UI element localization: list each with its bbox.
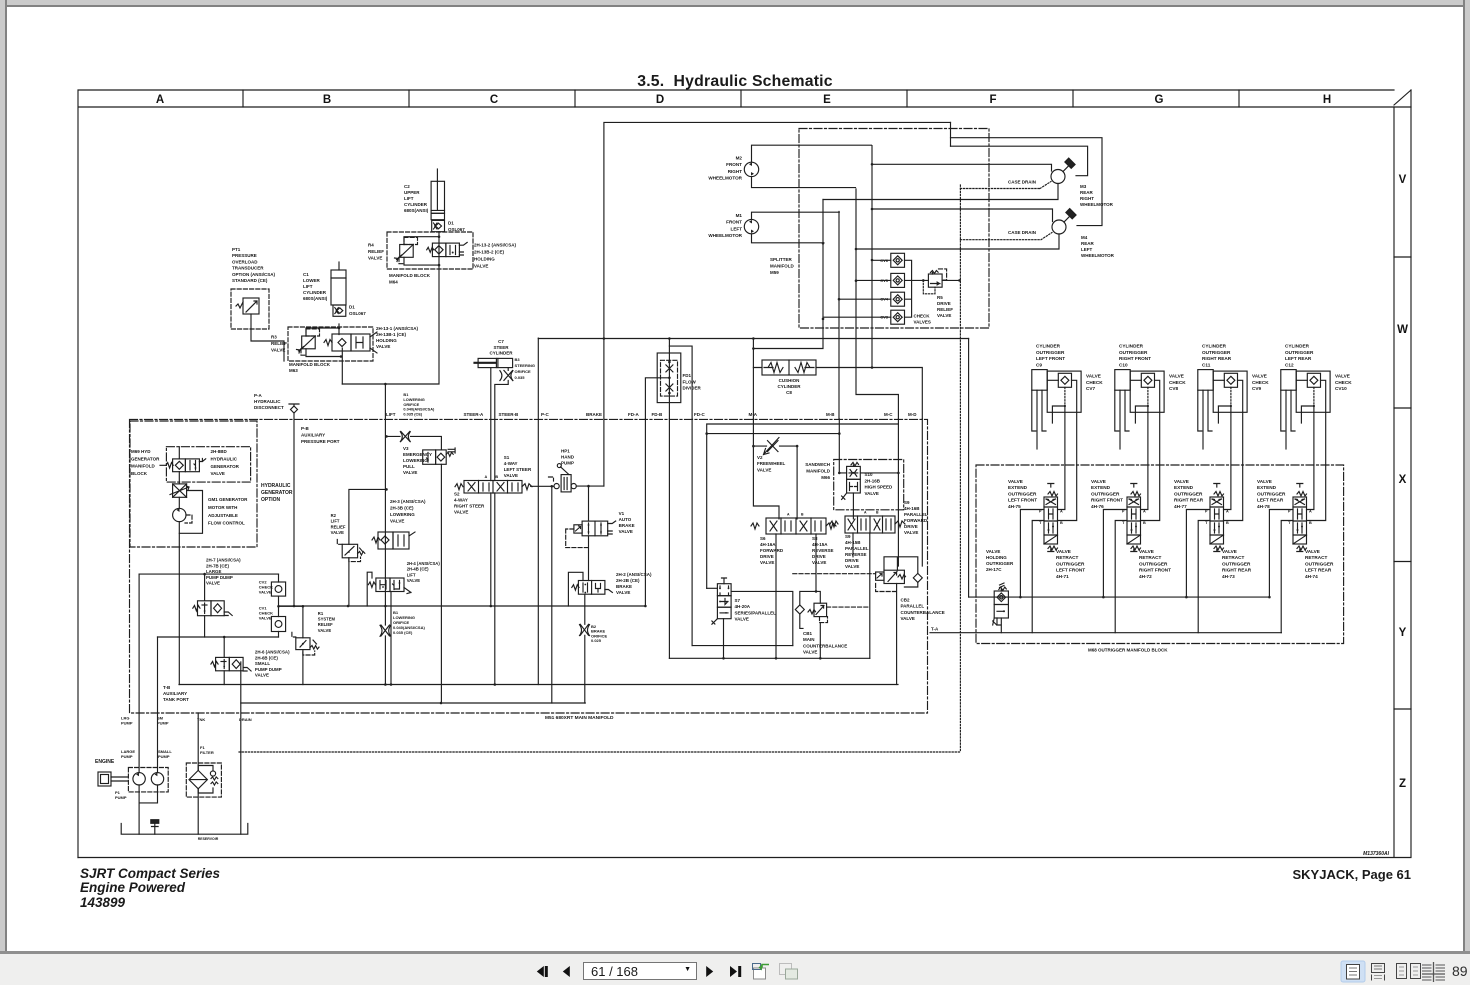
- relief valve R4: [368, 237, 418, 263]
- main counterbalance valve CB1: [795, 591, 870, 658]
- cushion wires: [753, 368, 922, 420]
- svg-text:PUMP DUMP: PUMP DUMP: [206, 575, 233, 580]
- svg-text:PT1: PT1: [232, 247, 241, 252]
- svg-text:C11: C11: [1202, 362, 1211, 367]
- svg-text:OSL067: OSL067: [349, 311, 366, 316]
- svg-text:VALVE: VALVE: [403, 470, 417, 475]
- wire splitter vertical c: [838, 212, 841, 420]
- svg-text:FRONT: FRONT: [726, 162, 742, 167]
- svg-text:4H-74: 4H-74: [1305, 574, 1318, 579]
- svg-text:4H-73: 4H-73: [1222, 574, 1235, 579]
- steer valve S1/S2 4-way: [454, 455, 532, 515]
- main manifold block M51 (dashed): [130, 419, 928, 721]
- svg-text:S9: S9: [845, 534, 851, 539]
- check valve CV10: [1296, 371, 1352, 423]
- svg-text:SANDWICH: SANDWICH: [805, 462, 830, 467]
- check valve CV6: [880, 253, 904, 267]
- svg-text:VALVES: VALVES: [914, 320, 931, 325]
- svg-text:OUTRIGGER: OUTRIGGER: [1056, 561, 1085, 566]
- svg-text:H: H: [1323, 94, 1331, 106]
- svg-text:VALVE: VALVE: [735, 617, 749, 622]
- svg-text:VALVE: VALVE: [986, 549, 1000, 554]
- svg-text:RIGHT FRONT: RIGHT FRONT: [1139, 568, 1171, 573]
- svg-text:VALVE: VALVE: [1086, 374, 1101, 379]
- svg-text:PRESSURE: PRESSURE: [232, 253, 257, 258]
- svg-text:CHECK: CHECK: [1086, 380, 1103, 385]
- svg-text:RIGHT FRONT: RIGHT FRONT: [1119, 356, 1151, 361]
- svg-text:OUTRIGGER: OUTRIGGER: [1305, 561, 1334, 566]
- svg-text:RETRACT: RETRACT: [1222, 555, 1245, 560]
- svg-text:C7: C7: [498, 339, 504, 344]
- svg-text:RELIEF: RELIEF: [368, 249, 384, 254]
- svg-text:EXTEND: EXTEND: [1008, 485, 1028, 490]
- svg-text:CHECK: CHECK: [1252, 380, 1269, 385]
- svg-text:CASE DRAIN: CASE DRAIN: [1008, 230, 1036, 235]
- svg-text:LEFT FRONT: LEFT FRONT: [1008, 498, 1037, 503]
- toolbar nav buttons: [530, 954, 810, 985]
- check valve CV4: [880, 292, 904, 306]
- main feed wire top: [538, 122, 968, 486]
- system relief valve R1: [292, 605, 336, 685]
- svg-text:RIGHT: RIGHT: [1080, 196, 1094, 201]
- svg-text:R2: R2: [331, 513, 337, 518]
- splitter manifold M59 box: [770, 129, 989, 329]
- svg-text:S8: S8: [812, 536, 818, 541]
- svg-text:VALVE: VALVE: [211, 471, 225, 476]
- svg-text:STEERING: STEERING: [515, 363, 535, 368]
- svg-text:VALVE: VALVE: [407, 578, 421, 583]
- svg-text:CYLINDER: CYLINDER: [303, 290, 327, 295]
- pump dump circuit wires: [139, 573, 303, 639]
- cushion cylinder C8: [762, 360, 816, 395]
- svg-text:E: E: [823, 94, 831, 106]
- svg-text:680S(ANSI): 680S(ANSI): [303, 296, 328, 301]
- svg-text:HYDRAULIC: HYDRAULIC: [211, 456, 238, 461]
- svg-text:EXTEND: EXTEND: [1174, 485, 1194, 490]
- svg-text:DRIVE: DRIVE: [845, 558, 859, 563]
- svg-text:M64: M64: [389, 280, 398, 285]
- toolbar: [0, 951, 1470, 954]
- svg-text:SYSTEM: SYSTEM: [318, 617, 336, 622]
- svg-text:ORIFICE: ORIFICE: [515, 369, 532, 374]
- svg-text:S7: S7: [735, 598, 741, 603]
- svg-text:VALVE: VALVE: [368, 255, 382, 260]
- bus line (y658): [669, 657, 869, 659]
- svg-text:WHEELMOTOR: WHEELMOTOR: [1081, 253, 1115, 258]
- svg-text:0.035 (CE): 0.035 (CE): [393, 630, 413, 635]
- svg-text:PARALLEL: PARALLEL: [901, 604, 925, 609]
- svg-text:M66: M66: [821, 475, 830, 480]
- lift valve 2H-4: [367, 561, 440, 685]
- svg-text:LEFT: LEFT: [731, 226, 743, 231]
- svg-text:P: P: [1039, 510, 1042, 514]
- svg-text:PUMP: PUMP: [561, 461, 574, 466]
- svg-text:VALVE: VALVE: [206, 581, 220, 586]
- svg-text:WHEELMOTOR: WHEELMOTOR: [1080, 202, 1114, 207]
- svg-text:2H-6 (ANSI/CSA): 2H-6 (ANSI/CSA): [255, 650, 290, 655]
- svg-text:VALVE: VALVE: [1252, 374, 1267, 379]
- svg-text:OUTRIGGER: OUTRIGGER: [1202, 350, 1231, 355]
- svg-text:D: D: [656, 94, 664, 106]
- svg-text:2H-3 (ANSI/CSA): 2H-3 (ANSI/CSA): [390, 499, 426, 504]
- svg-text:MANIFOLD: MANIFOLD: [806, 469, 830, 474]
- svg-text:OPTION (ANSI/CSA): OPTION (ANSI/CSA): [232, 272, 276, 277]
- svg-text:2H-17C: 2H-17C: [986, 567, 1002, 572]
- svg-text:V: V: [1399, 174, 1407, 186]
- pressure transducer PT1: [231, 247, 276, 329]
- svg-text:S1: S1: [504, 455, 510, 460]
- outrigger manifold block M68: [976, 465, 1344, 653]
- svg-text:STEER-B: STEER-B: [499, 412, 520, 417]
- svg-text:HYDRAULIC: HYDRAULIC: [261, 483, 291, 489]
- cylinder C2 upper lift: [431, 169, 444, 220]
- svg-text:B3: B3: [515, 357, 521, 362]
- svg-text:RELIEF: RELIEF: [937, 307, 953, 312]
- svg-text:4H-75: 4H-75: [1008, 504, 1021, 509]
- svg-text:0.035: 0.035: [515, 375, 526, 380]
- svg-text:LEFT REAR: LEFT REAR: [1257, 498, 1284, 503]
- holding valve 2H-13-2: [427, 242, 517, 268]
- svg-text:VALVE: VALVE: [454, 510, 468, 515]
- svg-text:RIGHT FRONT: RIGHT FRONT: [1091, 498, 1123, 503]
- bus line tank drain (y703): [241, 702, 586, 704]
- svg-text:MANIFOLD: MANIFOLD: [770, 264, 794, 269]
- outrigger extend valve 4H-75: [1008, 479, 1063, 552]
- wire hand pump ports: [531, 485, 604, 703]
- outrigger cylinder C11 right rear: [1198, 344, 1232, 450]
- svg-text:HYDRAULIC: HYDRAULIC: [254, 399, 281, 404]
- svg-text:4H-77: 4H-77: [1174, 504, 1187, 509]
- svg-text:W: W: [1397, 324, 1408, 336]
- svg-text:VALVE: VALVE: [1091, 479, 1106, 484]
- svg-text:4H-72: 4H-72: [1139, 574, 1152, 579]
- svg-text:DISCONNECT: DISCONNECT: [254, 405, 284, 410]
- svg-text:VALVE: VALVE: [845, 564, 859, 569]
- svg-text:REAR: REAR: [1081, 241, 1095, 246]
- svg-text:C: C: [490, 94, 498, 106]
- drive sub-box: [707, 424, 899, 588]
- svg-text:SMALL: SMALL: [255, 661, 270, 666]
- svg-text:VALVE: VALVE: [865, 491, 879, 496]
- svg-text:RETRACT: RETRACT: [1139, 555, 1162, 560]
- row labels V-Z: [1397, 174, 1408, 790]
- brake valve 2H-2: [568, 572, 652, 703]
- next page button: [706, 966, 713, 977]
- svg-text:CHECK: CHECK: [1169, 380, 1186, 385]
- svg-text:STANDARD (CE): STANDARD (CE): [232, 278, 268, 283]
- svg-text:BRAKE: BRAKE: [586, 412, 602, 417]
- svg-text:P-A: P-A: [254, 393, 263, 398]
- svg-text:FILTER: FILTER: [200, 750, 214, 755]
- flow divider FD1: [657, 353, 701, 403]
- orifice D1 OSL067 (lower): [333, 305, 366, 317]
- svg-text:REVERSE: REVERSE: [845, 552, 867, 557]
- svg-text:BRAKE: BRAKE: [616, 584, 632, 589]
- svg-text:FORWARD: FORWARD: [760, 548, 784, 553]
- svg-text:A: A: [864, 511, 867, 515]
- svg-text:4-WAY: 4-WAY: [504, 461, 518, 466]
- svg-text:OVERLOAD: OVERLOAD: [232, 259, 258, 264]
- svg-text:VALVE: VALVE: [259, 590, 272, 595]
- generator wires: [160, 447, 179, 685]
- emergency lowering pull valve V3: [385, 431, 455, 703]
- svg-text:BLOCK: BLOCK: [131, 471, 148, 476]
- svg-text:HAND: HAND: [561, 455, 575, 460]
- wire splitter vertical b: [855, 189, 899, 419]
- svg-text:2H-6B (CE): 2H-6B (CE): [255, 655, 278, 660]
- svg-text:A: A: [1143, 510, 1146, 514]
- svg-text:PULL: PULL: [403, 464, 415, 469]
- previous view icon: [753, 964, 770, 980]
- svg-text:CV10: CV10: [1335, 386, 1347, 391]
- svg-text:VALVE: VALVE: [616, 590, 630, 595]
- svg-text:CHECK: CHECK: [1335, 380, 1352, 385]
- svg-text:P: P: [1122, 510, 1125, 514]
- svg-text:VALVE: VALVE: [757, 467, 771, 472]
- svg-text:FD-A: FD-A: [628, 412, 639, 417]
- auto brake valve V1: [566, 486, 635, 580]
- svg-text:PUMP: PUMP: [121, 721, 133, 726]
- bus line T (y684.5): [179, 684, 898, 686]
- svg-text:0.035 (CE): 0.035 (CE): [403, 412, 423, 417]
- outrigger retract valve 4H-71: [1056, 549, 1085, 579]
- svg-text:F: F: [989, 94, 996, 106]
- manifold block M64: [387, 232, 473, 285]
- svg-text:4H-76: 4H-76: [1091, 504, 1104, 509]
- wire PT1 to manifold M63: [251, 329, 284, 361]
- svg-text:VALVE: VALVE: [474, 264, 488, 269]
- page title: [0, 73, 1470, 91]
- svg-text:SERIES/PARALLEL: SERIES/PARALLEL: [735, 610, 777, 615]
- port P-B auxiliary pressure: [301, 426, 340, 444]
- svg-text:DRIVE: DRIVE: [812, 554, 826, 559]
- svg-text:M-C: M-C: [884, 412, 893, 417]
- page number box: [583, 962, 697, 981]
- svg-text:CYLINDER: CYLINDER: [489, 351, 513, 356]
- svg-text:REVERSE: REVERSE: [812, 548, 834, 553]
- bus line P (y606): [279, 605, 646, 607]
- svg-text:RIGHT REAR: RIGHT REAR: [1202, 356, 1232, 361]
- svg-text:4H-16A: 4H-16A: [760, 542, 776, 547]
- svg-text:4-WAY: 4-WAY: [454, 498, 468, 503]
- svg-text:OUTRIGGER: OUTRIGGER: [1036, 350, 1065, 355]
- svg-text:HIGH SPEED: HIGH SPEED: [865, 485, 894, 490]
- svg-text:VALVE: VALVE: [1174, 479, 1189, 484]
- svg-text:LIFT: LIFT: [303, 284, 313, 289]
- svg-text:MOTOR WITH: MOTOR WITH: [208, 505, 237, 510]
- steering orifice B3: [500, 357, 535, 381]
- svg-text:Y: Y: [1399, 627, 1407, 639]
- svg-text:R5: R5: [937, 295, 943, 300]
- svg-text:PUMP: PUMP: [121, 754, 133, 759]
- svg-text:MANIFOLD BLOCK: MANIFOLD BLOCK: [389, 273, 431, 278]
- svg-text:R3: R3: [271, 335, 277, 340]
- svg-text:STEER-A: STEER-A: [464, 412, 485, 417]
- column labels A-H: [156, 94, 1331, 106]
- case drain lines: [239, 180, 1052, 753]
- svg-text:B: B: [323, 94, 331, 106]
- svg-text:A: A: [484, 475, 487, 479]
- outrigger cylinder C12 left rear: [1281, 344, 1314, 450]
- sandwich manifold M66: [805, 460, 903, 510]
- svg-text:PARALLEL: PARALLEL: [904, 512, 928, 517]
- label M2: [708, 156, 742, 181]
- engine E1: [95, 759, 128, 786]
- svg-text:VALVE: VALVE: [504, 473, 518, 478]
- hydraulic generator valve 2H-8BD: [166, 449, 240, 476]
- svg-text:B: B: [1060, 521, 1063, 525]
- lowering orifice B1: [380, 610, 425, 636]
- high speed valve S10: [705, 432, 899, 519]
- svg-text:A: A: [1309, 510, 1312, 514]
- svg-text:M59: M59: [770, 270, 779, 275]
- reservoir tank: [121, 820, 248, 841]
- svg-text:RELIEF: RELIEF: [318, 622, 333, 627]
- viewer chrome: right edge: [1465, 0, 1470, 952]
- drain line: [240, 662, 242, 834]
- label M1: [708, 213, 742, 238]
- svg-text:T-B: T-B: [163, 685, 171, 690]
- svg-text:Z: Z: [1399, 778, 1406, 790]
- svg-text:TANK PORT: TANK PORT: [163, 697, 189, 702]
- outrigger holding valve 2H-17C: [986, 549, 1014, 633]
- svg-text:2H-8BD: 2H-8BD: [211, 449, 228, 454]
- svg-text:TRANSDUCER: TRANSDUCER: [232, 266, 264, 271]
- wheel motor M1 front left: [744, 212, 839, 243]
- outrigger retract valve 4H-72: [1139, 549, 1171, 579]
- manifold block M63: [288, 327, 373, 373]
- svg-text:2H-16B: 2H-16B: [865, 478, 881, 483]
- toolbar right layout icons: [1330, 954, 1470, 985]
- svg-text:CUSHION: CUSHION: [779, 378, 800, 383]
- outrigger retract valve 4H-74: [1305, 549, 1334, 579]
- svg-text:FD1: FD1: [683, 373, 692, 378]
- svg-text:OUTRIGGER: OUTRIGGER: [1008, 491, 1037, 496]
- svg-text:PUMP DUMP: PUMP DUMP: [255, 667, 282, 672]
- svg-text:P-B: P-B: [301, 426, 310, 431]
- wire M64 outlet to lift junction: [342, 232, 440, 386]
- svg-text:2H-4 (ANSI/CSA): 2H-4 (ANSI/CSA): [407, 561, 441, 566]
- wheel motor M4 rear left: [856, 209, 1115, 258]
- svg-text:RELIEF: RELIEF: [271, 341, 287, 346]
- svg-text:M4: M4: [1081, 235, 1088, 240]
- svg-text:WHEELMOTOR: WHEELMOTOR: [708, 233, 742, 238]
- svg-text:C12: C12: [1285, 362, 1294, 367]
- drive relief valve R5: [912, 269, 961, 318]
- svg-text:VALVE: VALVE: [803, 650, 817, 655]
- small pump dump valve 2H-6: [211, 637, 290, 685]
- outrigger extend valve 4H-76: [1091, 479, 1146, 552]
- svg-text:WHEELMOTOR: WHEELMOTOR: [708, 176, 742, 181]
- svg-text:VALVE: VALVE: [331, 530, 345, 535]
- svg-text:VALVE: VALVE: [255, 673, 269, 678]
- svg-text:P: P: [1288, 510, 1291, 514]
- check valve CV1: [259, 606, 286, 632]
- svg-text:GENERATOR: GENERATOR: [211, 464, 240, 469]
- svg-text:M-D: M-D: [908, 412, 917, 417]
- svg-text:VALVE: VALVE: [259, 616, 272, 621]
- outrigger bus wires: [930, 597, 1281, 633]
- svg-text:CV9: CV9: [1252, 386, 1262, 391]
- grid frame header row: [78, 90, 1411, 858]
- svg-text:T: T: [1288, 521, 1291, 525]
- T-B auxiliary tank port: [163, 685, 189, 702]
- brake orifice B2: [580, 624, 608, 643]
- lowering valve 2H-3: [372, 499, 426, 549]
- freewheel valve V2: [752, 438, 798, 519]
- svg-text:VALVE: VALVE: [812, 560, 826, 565]
- svg-text:AUXILIARY: AUXILIARY: [301, 433, 325, 438]
- svg-text:VALVE: VALVE: [901, 616, 915, 621]
- series/parallel valve S7: [707, 578, 793, 660]
- svg-text:2H-7 (ANSI/CSA): 2H-7 (ANSI/CSA): [206, 558, 241, 563]
- svg-text:PUMP: PUMP: [115, 795, 127, 800]
- svg-text:OUTRIGGER: OUTRIGGER: [1174, 491, 1203, 496]
- hydraulic generator option box: [130, 421, 293, 547]
- footer right: [1111, 867, 1411, 882]
- svg-text:2H-4B (CE): 2H-4B (CE): [407, 567, 429, 572]
- svg-text:M2: M2: [736, 156, 743, 161]
- svg-text:4H-71: 4H-71: [1056, 574, 1069, 579]
- svg-text:2H-13B-1 (CE): 2H-13B-1 (CE): [376, 332, 407, 337]
- svg-text:OUTRIGGER: OUTRIGGER: [1091, 491, 1120, 496]
- svg-text:FLOW: FLOW: [683, 379, 697, 384]
- svg-text:B: B: [1309, 521, 1312, 525]
- first page button: [537, 966, 548, 977]
- svg-text:VALVE: VALVE: [390, 519, 404, 524]
- svg-text:M69 HYD: M69 HYD: [131, 449, 151, 454]
- outrigger cylinder C10 right front: [1115, 344, 1151, 450]
- svg-text:T-A: T-A: [931, 627, 939, 632]
- svg-text:C1: C1: [303, 272, 309, 277]
- svg-text:FD-C: FD-C: [694, 412, 705, 417]
- check valve CV3: [880, 310, 904, 324]
- svg-text:LEFT REAR: LEFT REAR: [1305, 568, 1332, 573]
- wire splitter vertical a: [871, 146, 874, 369]
- svg-text:MANIFOLD: MANIFOLD: [131, 464, 155, 469]
- svg-text:X: X: [1399, 474, 1407, 486]
- svg-text:4H-78: 4H-78: [1257, 504, 1270, 509]
- label lowering orifice B1 upper: [403, 392, 435, 417]
- parallel counterbalance valve CB2: [876, 557, 945, 685]
- svg-text:RETRACT: RETRACT: [1305, 555, 1328, 560]
- svg-text:S6: S6: [760, 536, 766, 541]
- svg-text:RIGHT REAR: RIGHT REAR: [1174, 498, 1204, 503]
- svg-text:M-B: M-B: [826, 412, 835, 417]
- wheel motor M3 rear right: [823, 158, 1114, 207]
- svg-text:V3: V3: [403, 446, 409, 451]
- svg-text:D1: D1: [448, 221, 454, 226]
- svg-text:AUXILIARY: AUXILIARY: [163, 691, 187, 696]
- cylinder C1 lower lift: [303, 262, 346, 305]
- pump P1 large/small: [115, 574, 172, 834]
- svg-text:CYLINDER: CYLINDER: [1036, 344, 1061, 349]
- svg-text:VALVE: VALVE: [1335, 374, 1350, 379]
- svg-text:B: B: [1226, 521, 1229, 525]
- svg-text:PARALLEL: PARALLEL: [845, 546, 869, 551]
- svg-text:A: A: [156, 94, 164, 106]
- svg-text:A: A: [1060, 510, 1063, 514]
- svg-text:CYLINDER: CYLINDER: [1285, 344, 1310, 349]
- svg-text:D1: D1: [349, 305, 355, 310]
- svg-text:OUTRIGGER: OUTRIGGER: [1139, 561, 1168, 566]
- svg-text:EXTEND: EXTEND: [1091, 485, 1111, 490]
- svg-text:OUTRIGGER: OUTRIGGER: [1119, 350, 1148, 355]
- outrigger cylinder C9 left front: [1032, 344, 1065, 450]
- svg-text:LARGE: LARGE: [206, 569, 221, 574]
- svg-text:G: G: [1155, 94, 1164, 106]
- svg-text:B: B: [801, 513, 804, 517]
